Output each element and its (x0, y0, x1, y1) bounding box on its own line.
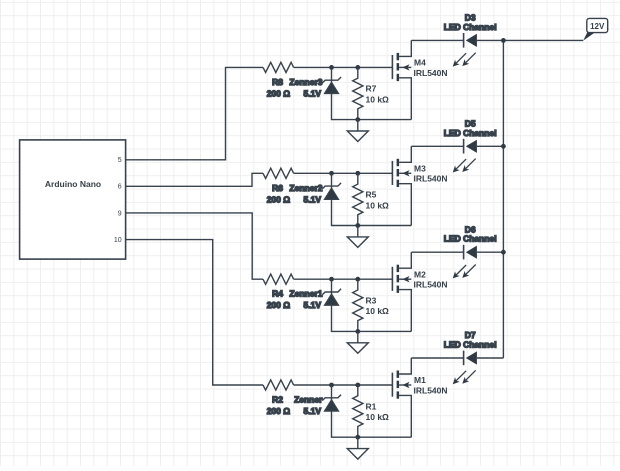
svg-text:IRL540N: IRL540N (414, 280, 448, 290)
svg-text:M3: M3 (414, 164, 426, 174)
svg-text:Zenner1: Zenner1 (289, 289, 322, 299)
svg-text:10 kΩ: 10 kΩ (366, 306, 390, 316)
resistor R7 10k pulldown (353, 67, 363, 119)
node rail ch3 (501, 250, 506, 255)
svg-text:5.1V: 5.1V (304, 300, 322, 310)
ground ch2 (357, 226, 359, 237)
node gate-zener ch1 (329, 65, 334, 70)
svg-text:5.1V: 5.1V (304, 88, 322, 98)
LED light arrow (466, 265, 476, 275)
node pulldown-source ch1 (355, 117, 360, 122)
LED light arrow (456, 53, 466, 63)
svg-text:Zenner2: Zenner2 (289, 183, 322, 193)
svg-text:R1: R1 (366, 401, 377, 411)
wire pin 6 to gate net ch2 (126, 173, 263, 186)
svg-text:R5: R5 (366, 190, 377, 200)
wire 12V rail (502, 40, 504, 358)
svg-text:Arduino Nano: Arduino Nano (45, 179, 101, 189)
node gate-zener ch3 (329, 277, 334, 282)
svg-text:200 Ω: 200 Ω (267, 194, 291, 204)
svg-text:R4: R4 (272, 289, 283, 299)
svg-text:12V: 12V (590, 22, 605, 31)
svg-text:6: 6 (118, 184, 122, 191)
ground ch4 (357, 437, 359, 448)
svg-text:LED Channel: LED Channel (444, 22, 497, 32)
transistor M3 IRL540N (391, 161, 393, 185)
wire resistor to gate ch4 (294, 384, 393, 386)
node pulldown-source ch4 (355, 435, 360, 440)
resistor R6 200ohm (263, 168, 294, 178)
node gate-pulldown ch1 (355, 65, 360, 70)
svg-text:R6: R6 (272, 183, 283, 193)
power label 12V (583, 32, 595, 41)
LED light arrow (456, 371, 466, 381)
LED light arrow (456, 265, 466, 275)
wire resistor to gate ch1 (294, 66, 393, 68)
LED D5 (463, 139, 465, 154)
LED light arrow (456, 159, 466, 169)
svg-text:LED Channel: LED Channel (444, 128, 497, 138)
transistor M4 IRL540N (391, 55, 393, 79)
LED light arrow (466, 370, 476, 380)
svg-text:R8: R8 (272, 77, 283, 87)
svg-text:5.1V: 5.1V (304, 194, 322, 204)
transistor M1 IRL540N (391, 373, 393, 397)
LED light arrow (466, 53, 476, 63)
node gate-pulldown ch2 (355, 171, 360, 176)
LED light arrow (466, 159, 476, 169)
node gate-pulldown ch4 (355, 383, 360, 388)
svg-text:10 kΩ: 10 kΩ (366, 412, 390, 422)
wire LED anode to 12V rail ch1 (477, 39, 583, 41)
wire LED anode to 12V rail ch4 (477, 357, 504, 359)
wire LED anode to 12V rail ch2 (477, 145, 504, 147)
wire pin 9 to gate net ch3 (126, 213, 263, 279)
node gate-zener ch4 (329, 383, 334, 388)
ground ch1 (357, 120, 359, 131)
svg-text:200 Ω: 200 Ω (267, 88, 291, 98)
wire zener to source rail ch4 (332, 411, 412, 437)
svg-text:5: 5 (118, 157, 122, 164)
wire zener to source rail ch2 (332, 199, 412, 225)
resistor R5 10k pulldown (353, 173, 363, 225)
wire resistor to gate ch2 (294, 172, 393, 174)
wire zener to source rail ch1 (332, 93, 412, 119)
resistor R8 200ohm (263, 62, 294, 72)
LED D3 (463, 33, 465, 48)
svg-text:LED Channel: LED Channel (444, 340, 497, 350)
svg-text:R2: R2 (272, 395, 283, 405)
LED D6 (463, 245, 465, 260)
node rail ch1 (501, 38, 506, 43)
wire pin 10 to gate net ch4 (126, 240, 263, 385)
wire drain to LED D5 (411, 145, 463, 147)
wire pin 5 to gate net ch1 (126, 67, 263, 159)
wire resistor to gate ch3 (294, 278, 393, 280)
node pulldown-source ch3 (355, 329, 360, 334)
svg-text:200 Ω: 200 Ω (267, 406, 291, 416)
svg-text:10: 10 (114, 237, 122, 244)
wire drain to LED D6 (411, 251, 463, 253)
node gate-zener ch2 (329, 171, 334, 176)
svg-text:5.1V: 5.1V (304, 406, 322, 416)
resistor R2 200ohm (263, 380, 294, 390)
zener diode Zenner2 5.1V (331, 173, 333, 199)
zener diode Zenner1 5.1V (331, 279, 333, 305)
zener diode Zenner3 5.1V (331, 67, 333, 93)
node gate-pulldown ch3 (355, 277, 360, 282)
svg-text:IRL540N: IRL540N (414, 385, 448, 395)
resistor R1 10k pulldown (353, 385, 363, 437)
svg-text:Zenner3: Zenner3 (289, 77, 322, 87)
svg-text:M4: M4 (414, 58, 426, 68)
svg-text:IRL540N: IRL540N (414, 68, 448, 78)
transistor M2 IRL540N (391, 267, 393, 291)
svg-text:R7: R7 (366, 84, 377, 94)
zener diode Zenner 5.1V (331, 385, 333, 411)
Arduino Nano U1 (20, 140, 126, 259)
wire drain to LED D7 (411, 357, 463, 359)
resistor R3 10k pulldown (353, 279, 363, 331)
svg-text:Zenner: Zenner (294, 395, 323, 405)
node rail ch2 (501, 144, 506, 149)
ground ch3 (357, 331, 359, 342)
wire zener to source rail ch3 (332, 305, 412, 331)
svg-text:200 Ω: 200 Ω (267, 300, 291, 310)
wire drain to LED D3 (411, 39, 463, 41)
svg-text:10 kΩ: 10 kΩ (366, 200, 390, 210)
svg-text:R3: R3 (366, 296, 377, 306)
wire LED anode to 12V rail ch3 (477, 251, 504, 253)
LED D7 (463, 351, 465, 366)
svg-text:10 kΩ: 10 kΩ (366, 94, 390, 104)
svg-text:M1: M1 (414, 375, 426, 385)
node pulldown-source ch2 (355, 223, 360, 228)
svg-text:M2: M2 (414, 269, 426, 279)
svg-text:IRL540N: IRL540N (414, 174, 448, 184)
svg-text:9: 9 (118, 210, 122, 217)
svg-text:LED Channel: LED Channel (444, 234, 497, 244)
resistor R4 200ohm (263, 274, 294, 284)
